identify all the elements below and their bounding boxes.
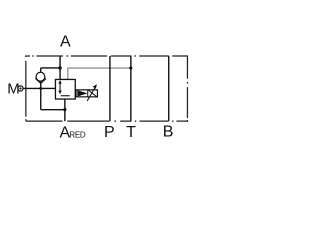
- svg-text:A: A: [60, 34, 71, 51]
- svg-text:T: T: [126, 124, 136, 141]
- svg-text:B: B: [163, 124, 174, 141]
- svg-text:P: P: [104, 124, 115, 141]
- svg-text:M: M: [7, 81, 20, 98]
- svg-text:RED: RED: [69, 131, 86, 140]
